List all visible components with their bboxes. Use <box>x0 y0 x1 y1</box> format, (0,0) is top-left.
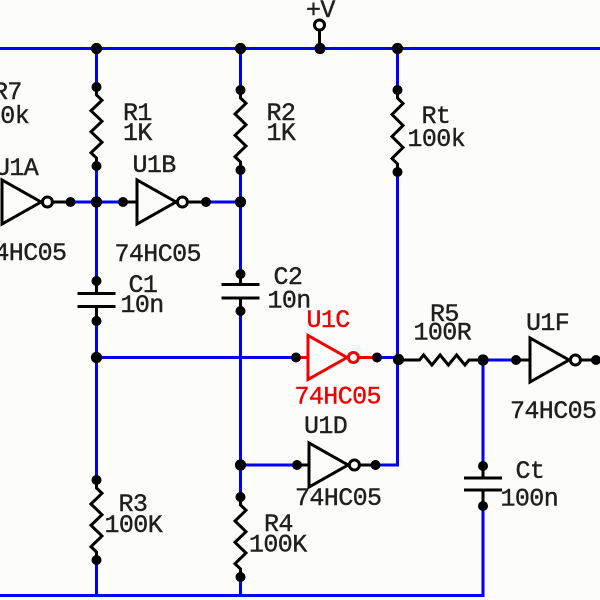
capacitor C1 labels <box>121 271 164 320</box>
capacitor C2 <box>222 269 260 316</box>
junction U1C output / column C <box>393 354 404 365</box>
wire column B: C2 to R4 (through U1D input node) <box>239 310 242 498</box>
resistor Rt labels <box>408 102 466 154</box>
junction node A / row3 <box>91 352 102 363</box>
resistor Rt <box>392 85 403 177</box>
wire column A: R1 to C1 (through U1A output node) <box>95 166 98 282</box>
junction rail / column B <box>235 43 246 54</box>
op-amp U1A (inverter, input off-sheet) <box>2 180 76 224</box>
U1D labels <box>295 412 381 513</box>
+V power symbol <box>315 20 325 46</box>
svg-text:100n: 100n <box>501 485 559 514</box>
resistor R3 labels <box>105 490 163 540</box>
svg-text:Ct: Ct <box>516 457 545 486</box>
capacitor C2 labels <box>268 263 311 316</box>
junction rail / column A <box>91 43 102 54</box>
U1F labels <box>510 309 596 426</box>
+V label <box>306 0 335 25</box>
resistor R1 <box>91 82 102 171</box>
wire column B: rail to R2 <box>239 49 242 92</box>
wire column A: rail to R1 <box>95 49 98 89</box>
wire row2: U1A output to U1B input <box>71 201 125 204</box>
wire bottom rail <box>0 594 485 597</box>
svg-text:U1F: U1F <box>526 309 569 338</box>
wire row3: U1F output to edge <box>596 359 600 362</box>
svg-text:100K: 100K <box>105 511 163 540</box>
svg-text:74HC05: 74HC05 <box>295 484 381 513</box>
U1C labels <box>295 306 381 412</box>
svg-text:1K: 1K <box>267 119 296 148</box>
svg-text:10n: 10n <box>268 287 311 316</box>
svg-text:U1A: U1A <box>0 154 39 183</box>
junction U1A output node <box>91 196 102 207</box>
op-amp U1F (inverter) <box>511 338 600 382</box>
svg-text:10n: 10n <box>121 291 164 320</box>
wire column D: R5 node down to Ct <box>482 359 485 468</box>
wire row2: U1B output to column B <box>206 201 241 204</box>
svg-text:100R: 100R <box>414 319 472 348</box>
resistor R2 labels <box>267 99 296 148</box>
wire column C: Rt to U1D output corner (through U1C output node) <box>396 171 399 467</box>
capacitor Ct labels <box>501 457 559 514</box>
resistor R3 <box>91 475 102 565</box>
svg-text:+V: +V <box>306 0 335 25</box>
svg-text:100k: 100k <box>0 102 29 131</box>
wire row4: U1D output to column C <box>376 464 398 467</box>
wire column B: R2 to C2 (through U1B output node) <box>239 169 242 275</box>
svg-text:U1B: U1B <box>133 151 177 180</box>
wire row3: U1C output to column C <box>377 356 398 359</box>
svg-text:U1C: U1C <box>307 306 350 335</box>
op-amp U1B (inverter) <box>118 180 211 224</box>
resistor R4 <box>235 492 246 582</box>
svg-text:U1D: U1D <box>304 412 347 441</box>
junction rail / +V <box>314 43 325 54</box>
capacitor C1 <box>78 276 116 326</box>
resistor R2 <box>235 85 246 175</box>
wire row4: column B to U1D input <box>241 464 298 467</box>
wire column D: Ct to bottom rail <box>482 505 485 597</box>
junction U1D input / column B <box>235 459 246 470</box>
U1A labels <box>0 154 66 268</box>
svg-text:100K: 100K <box>249 531 307 560</box>
wire column B: R4 to bottom rail <box>239 576 242 596</box>
wire column A: C1 to R3 (through node to U1C) <box>95 320 98 481</box>
resistor R7 labels (body off-sheet) <box>0 78 29 131</box>
resistor R5 <box>398 355 484 365</box>
wire column C: rail to Rt <box>396 49 399 92</box>
junction U1B output node <box>235 196 246 207</box>
svg-text:1K: 1K <box>123 119 152 148</box>
svg-text:100k: 100k <box>408 125 466 154</box>
svg-text:74HC05: 74HC05 <box>295 383 381 412</box>
junction rail / column C <box>392 43 403 54</box>
wire row3: node A to U1C input <box>97 356 297 359</box>
capacitor Ct <box>464 461 502 511</box>
svg-text:74HC05: 74HC05 <box>0 239 66 268</box>
svg-text:74HC05: 74HC05 <box>115 240 201 269</box>
wire row3: R5 node to U1F input <box>483 359 516 362</box>
resistor R4 labels <box>249 510 307 560</box>
resistor R5 labels <box>414 300 472 348</box>
wire column A: R3 to bottom rail <box>95 559 98 596</box>
op-amp U1D (inverter) <box>292 443 381 487</box>
wire +V top power rail <box>0 47 600 50</box>
svg-text:74HC05: 74HC05 <box>510 397 596 426</box>
junction R5 / U1F input / column D <box>477 354 488 365</box>
resistor R1 labels <box>123 99 152 148</box>
U1B labels <box>115 151 201 269</box>
op-amp U1C (inverter, highlighted) <box>291 336 382 380</box>
